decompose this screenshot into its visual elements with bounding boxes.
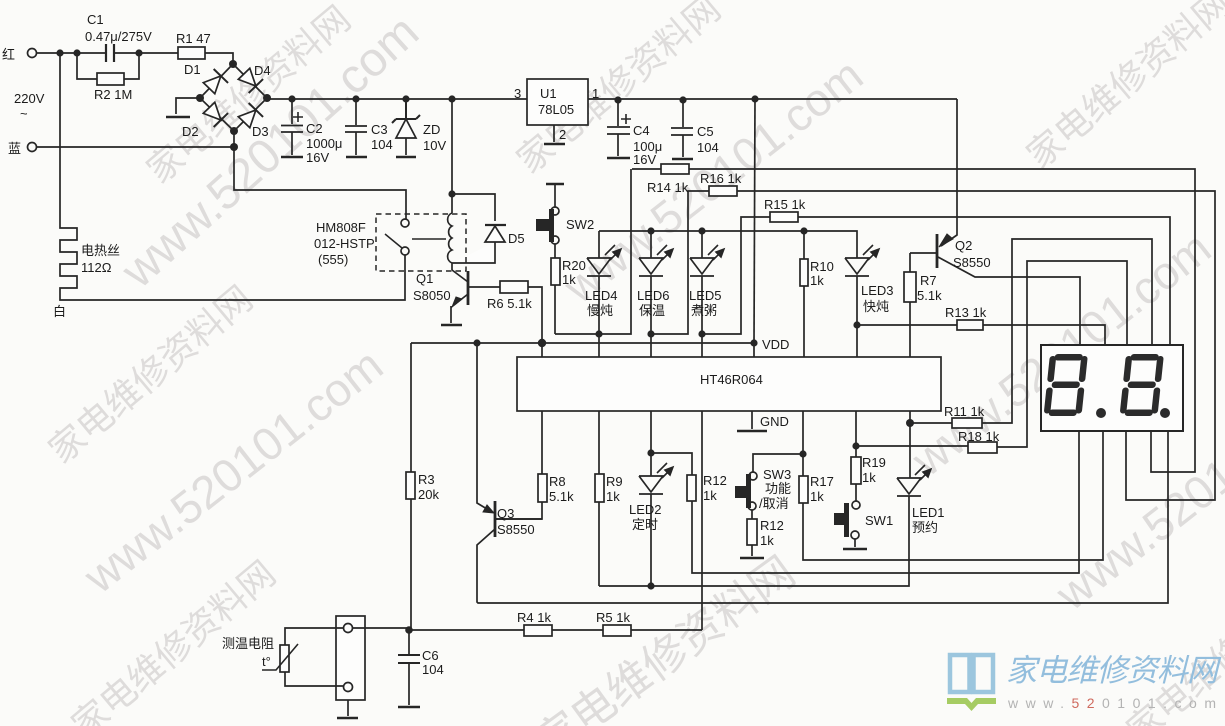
relay contact bottom xyxy=(401,247,409,255)
svg-text:C4: C4 xyxy=(633,123,650,138)
svg-text:R20: R20 xyxy=(562,258,586,273)
svg-text:R12: R12 xyxy=(760,518,784,533)
svg-text:R6 5.1k: R6 5.1k xyxy=(487,296,532,311)
wire bridge left to chassis xyxy=(176,98,200,114)
svg-text:R4 1k: R4 1k xyxy=(517,610,551,625)
resistor R7 xyxy=(910,253,936,357)
resistor R17 xyxy=(803,411,1103,560)
relay coil xyxy=(448,213,452,270)
svg-text:U1: U1 xyxy=(540,86,557,101)
svg-text:蓝: 蓝 xyxy=(8,141,21,156)
thermistor RT xyxy=(280,645,289,672)
svg-text:/取消: /取消 xyxy=(759,496,789,511)
wire R2 branch xyxy=(77,53,139,79)
svg-text:D2: D2 xyxy=(182,124,199,139)
wire L-phase top xyxy=(37,53,233,64)
wire cathode bracket3 R15 xyxy=(702,217,1170,345)
svg-text:S8050: S8050 xyxy=(413,288,451,303)
svg-text:1: 1 xyxy=(592,86,599,101)
svg-text:定时: 定时 xyxy=(632,517,658,532)
svg-text:快炖: 快炖 xyxy=(863,299,889,314)
svg-text:D4: D4 xyxy=(254,63,271,78)
wire Q1 base xyxy=(468,287,542,357)
bridge rectifier D1-D4 frame xyxy=(200,64,267,131)
resistor R2 xyxy=(97,73,124,85)
svg-text:R8: R8 xyxy=(549,474,566,489)
svg-text:R19: R19 xyxy=(862,455,886,470)
svg-text:104: 104 xyxy=(371,137,393,152)
svg-text:LED1: LED1 xyxy=(912,505,945,520)
capacitor C3 xyxy=(345,99,367,155)
wire relay supply xyxy=(452,99,495,221)
svg-text:R11 1k: R11 1k xyxy=(944,404,985,419)
svg-text:C6: C6 xyxy=(422,648,439,663)
transistor Q2 xyxy=(936,234,939,268)
svg-text:HM808F: HM808F xyxy=(316,220,366,235)
svg-text:功能: 功能 xyxy=(765,481,791,496)
resistor R18 xyxy=(968,442,997,453)
svg-text:C5: C5 xyxy=(697,124,714,139)
wire rectified rail xyxy=(267,98,957,99)
svg-text:D1: D1 xyxy=(184,62,201,77)
relay contact top xyxy=(401,219,409,227)
svg-text:1k: 1k xyxy=(810,489,824,504)
capacitor C4 xyxy=(607,100,630,156)
ground C6 xyxy=(398,706,420,709)
svg-text:R12: R12 xyxy=(703,473,727,488)
svg-text:C1: C1 xyxy=(87,12,104,27)
svg-text:R17: R17 xyxy=(810,474,834,489)
relay switch arm xyxy=(385,234,446,248)
resistor R13 xyxy=(957,320,983,330)
resistor R14 xyxy=(661,164,689,174)
svg-text:20k: 20k xyxy=(418,487,439,502)
resistor R15 xyxy=(770,212,798,222)
svg-text:0.47μ/275V: 0.47μ/275V xyxy=(85,29,152,44)
resistor R8 xyxy=(495,411,542,519)
svg-text:S8550: S8550 xyxy=(953,255,991,270)
wire R11 row xyxy=(910,239,1152,478)
ground R12 lower xyxy=(740,557,764,560)
svg-text:SW3: SW3 xyxy=(763,467,791,482)
svg-text:GND: GND xyxy=(760,414,789,429)
svg-text:家电维修资料网: 家电维修资料网 xyxy=(1006,653,1222,688)
svg-text:R9: R9 xyxy=(606,474,623,489)
transistor Q3 xyxy=(494,501,497,537)
resistor R12 lower xyxy=(751,510,753,556)
svg-text:慢炖: 慢炖 xyxy=(587,303,613,318)
svg-text:R1 47: R1 47 xyxy=(176,31,211,46)
svg-text:D3: D3 xyxy=(252,124,269,139)
ground MCU xyxy=(737,430,767,433)
relay HM808F dashed box xyxy=(376,214,466,271)
wire cathode bracket1 R14 xyxy=(555,169,1195,472)
svg-text:16V: 16V xyxy=(306,150,329,165)
capacitor C2 xyxy=(281,99,303,155)
diode D3 xyxy=(237,103,263,129)
ground U1 xyxy=(544,143,565,146)
capacitor C1 xyxy=(106,44,114,62)
svg-text:78L05: 78L05 xyxy=(538,102,574,117)
resistor R9 xyxy=(598,411,600,586)
LED LED2 xyxy=(639,411,663,586)
svg-text:104: 104 xyxy=(422,662,444,677)
wire cathode bracket2 R16 xyxy=(651,191,1215,500)
svg-text:LED5: LED5 xyxy=(689,288,722,303)
svg-text:VDD: VDD xyxy=(762,337,789,352)
resistor R6 xyxy=(500,281,528,293)
switch SW1 xyxy=(852,501,860,509)
wire connector ground xyxy=(347,700,349,716)
MCU HT46R064 xyxy=(517,357,941,411)
resistor R10 xyxy=(803,231,805,357)
svg-text:5.1k: 5.1k xyxy=(917,288,942,303)
svg-text:Q2: Q2 xyxy=(955,238,972,253)
svg-text:白: 白 xyxy=(53,304,66,319)
node 红 terminal xyxy=(28,49,37,58)
resistor R19 xyxy=(855,411,857,501)
svg-text:LED3: LED3 xyxy=(861,283,894,298)
svg-text:5.1k: 5.1k xyxy=(549,489,574,504)
svg-text:3: 3 xyxy=(514,86,521,101)
svg-text:1k: 1k xyxy=(562,272,576,287)
wire thermistor net xyxy=(408,630,410,705)
svg-text:1k: 1k xyxy=(810,273,824,288)
svg-text:Q3: Q3 xyxy=(497,506,514,521)
svg-text:C2: C2 xyxy=(306,121,323,136)
svg-text:R16 1k: R16 1k xyxy=(700,171,742,186)
svg-text:R2 1M: R2 1M xyxy=(94,87,132,102)
svg-text:C3: C3 xyxy=(371,122,388,137)
regulator U1 xyxy=(527,79,588,125)
LED LED3 xyxy=(845,258,869,357)
svg-text:R7: R7 xyxy=(920,273,937,288)
diode D4 xyxy=(237,67,263,93)
resistor R12 xyxy=(651,431,1079,573)
wire MCU pin to R5/R4 row xyxy=(409,411,702,630)
svg-text:R5 1k: R5 1k xyxy=(596,610,630,625)
ground connector xyxy=(337,717,358,720)
svg-text:1k: 1k xyxy=(760,533,774,548)
resistor R1 xyxy=(178,47,205,59)
wire VDD rail xyxy=(411,343,754,630)
svg-text:ZD: ZD xyxy=(423,122,440,137)
diode D2 xyxy=(202,101,228,127)
heater element 电热丝 112Ω and wire xyxy=(60,53,405,300)
svg-text:HT46R064: HT46R064 xyxy=(700,372,763,387)
capacitor C6 xyxy=(398,655,420,663)
svg-text:1k: 1k xyxy=(606,489,620,504)
svg-text:SW1: SW1 xyxy=(865,513,893,528)
svg-text:预约: 预约 xyxy=(912,520,938,535)
ground SW1 xyxy=(843,548,867,551)
svg-text:1000μ: 1000μ xyxy=(306,136,342,151)
LED LED5 xyxy=(690,231,714,357)
svg-text:16V: 16V xyxy=(633,152,656,167)
switch SW3 xyxy=(753,454,803,472)
svg-text:1k: 1k xyxy=(703,488,717,503)
LED LED1 xyxy=(599,478,921,586)
svg-text:S8550: S8550 xyxy=(497,522,535,537)
wire R18 row xyxy=(856,261,1127,447)
switch SW2 xyxy=(546,183,564,185)
LED LED6 xyxy=(639,231,663,357)
transistor Q1 xyxy=(467,271,470,305)
svg-text:R18 1k: R18 1k xyxy=(958,429,1000,444)
resistor R11 xyxy=(952,418,982,428)
svg-text:R15 1k: R15 1k xyxy=(764,197,806,212)
diode D1 xyxy=(202,69,228,95)
svg-text:~: ~ xyxy=(20,106,28,121)
svg-text:R3: R3 xyxy=(418,472,435,487)
resistor R20 xyxy=(554,244,556,334)
svg-text:SW2: SW2 xyxy=(566,217,594,232)
LED LED4 xyxy=(587,231,611,357)
svg-text:红: 红 xyxy=(2,47,15,62)
display DS1 box xyxy=(1041,345,1183,431)
capacitor C5 xyxy=(671,100,693,157)
svg-text:煮粥: 煮粥 xyxy=(691,303,717,318)
svg-text:1k: 1k xyxy=(862,470,876,485)
ground chassis xyxy=(166,116,190,119)
wire 5V feed right xyxy=(754,99,755,343)
svg-text:104: 104 xyxy=(697,140,719,155)
wire R13 row xyxy=(857,325,1105,345)
svg-text:012-HSTP: 012-HSTP xyxy=(314,236,375,251)
svg-text:10V: 10V xyxy=(423,138,446,153)
display DS1 digits xyxy=(1043,354,1170,418)
wire U1 pin2 xyxy=(553,125,555,142)
resistor R3 xyxy=(406,472,415,499)
svg-text:(555): (555) xyxy=(318,252,348,267)
node 蓝 terminal xyxy=(28,143,37,152)
svg-text:LED4: LED4 xyxy=(585,288,618,303)
svg-text:t°: t° xyxy=(262,654,271,669)
connector CN1 xyxy=(336,616,365,700)
wire GND pin xyxy=(751,411,753,429)
svg-text:D5: D5 xyxy=(508,231,525,246)
svg-text:电热丝: 电热丝 xyxy=(81,243,120,258)
svg-text:Q1: Q1 xyxy=(416,271,433,286)
wire thermistor loop xyxy=(285,628,409,686)
diode D5 xyxy=(485,224,506,226)
wire LED anode rail xyxy=(599,231,857,258)
zener ZD xyxy=(392,99,420,123)
svg-text:R13 1k: R13 1k xyxy=(945,305,987,320)
svg-text:保温: 保温 xyxy=(639,303,665,318)
svg-text:测温电阻: 测温电阻 xyxy=(222,636,274,651)
svg-text:R14 1k: R14 1k xyxy=(647,180,689,195)
resistor R4 xyxy=(524,625,552,636)
svg-text:LED2: LED2 xyxy=(629,502,662,517)
resistor R16 xyxy=(709,186,737,196)
svg-text:LED6: LED6 xyxy=(637,288,670,303)
svg-text:R10: R10 xyxy=(810,259,834,274)
resistor R5 xyxy=(603,625,631,636)
svg-text:112Ω: 112Ω xyxy=(81,260,112,275)
svg-text:2: 2 xyxy=(559,127,566,142)
logo bottom right xyxy=(947,653,1222,711)
ground Q1 xyxy=(441,324,462,327)
wire N-phase xyxy=(37,131,406,219)
svg-text:220V: 220V xyxy=(14,91,45,106)
